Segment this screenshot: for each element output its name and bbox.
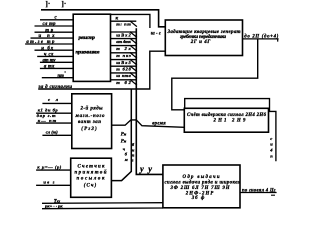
svg-text:Одр выдачи: Одр выдачи <box>183 175 220 180</box>
wire register top output to node K <box>111 14 150 28</box>
wire register output 8 to bus <box>111 73 137 79</box>
wire register output 5 to bus <box>111 52 137 58</box>
svg-text:шВх2: шВх2 <box>116 32 131 37</box>
svg-text:к— пт: к— пт <box>38 118 57 123</box>
wire strobe line from oscillator U2 <box>38 51 165 89</box>
counter U4 box <box>71 158 112 197</box>
wire register input 2 <box>35 22 74 27</box>
wire register output 3 to bus <box>111 38 137 44</box>
wire top line into oscillator U2 <box>41 10 165 27</box>
svg-text:по гновял 4 Цг: по гновял 4 Цг <box>242 189 276 194</box>
svg-text:время: время <box>152 122 166 127</box>
svg-text:вант зап: вант зап <box>78 120 101 125</box>
svg-text:(Сч): (Сч) <box>84 184 97 189</box>
svg-text:сл (т): сл (т) <box>46 129 58 134</box>
svg-text:т б28: т б28 <box>116 67 131 72</box>
svg-text:за д сигнални: за д сигнални <box>38 85 73 90</box>
svg-text:]·: ]· <box>62 0 67 8</box>
wire U6 output <box>240 189 277 196</box>
wire register output 1 to bus <box>111 21 137 27</box>
svg-text:ат 4тк: ат 4тк <box>116 39 131 44</box>
wire U5 input 2 <box>36 108 72 114</box>
wire U5 input 1 <box>42 97 71 103</box>
wire register input 10 <box>42 74 73 79</box>
label vertical text left of bus B <box>123 147 128 162</box>
svg-text:3б ф: 3б ф <box>191 196 205 201</box>
delay counter U3 label <box>187 113 267 123</box>
svg-text:3Ф 2Ш 6Л 7Н 7Ш 9Н: 3Ф 2Ш 6Л 7Н 7Ш 9Н <box>170 186 230 191</box>
register U1 label <box>76 35 101 56</box>
register U1 box <box>73 14 110 81</box>
svg-text:магн.-ного: магн.-ного <box>75 114 106 119</box>
svg-text:б: б <box>132 142 135 147</box>
svg-text:п: п <box>270 154 273 159</box>
label vertical marks on W2 output <box>269 136 273 159</box>
delay counter U3 box <box>184 108 268 132</box>
wire register input 8 <box>40 58 73 63</box>
svg-text:(Рг3): (Рг3) <box>81 127 97 132</box>
svg-text:т 2х: т 2х <box>116 46 131 51</box>
svg-text:т б2: т б2 <box>116 80 131 85</box>
svg-text:н: н <box>132 147 135 152</box>
oscillator U2 output label <box>243 34 279 41</box>
bus A vertical <box>136 28 163 174</box>
svg-text:к μ=— (р): к μ=— (р) <box>37 165 61 170</box>
wire U2 output to U3 input <box>172 39 258 110</box>
svg-text:н бх: н бх <box>41 46 54 51</box>
label vertical text between bus lines <box>132 142 135 163</box>
wire register input 9 <box>40 65 73 70</box>
wire W2 loop from U3 top to output arrow <box>185 99 276 162</box>
svg-text:регистр: регистр <box>78 35 96 41</box>
wire register output 7 to bus <box>111 66 137 72</box>
svg-text:ш-г: ш-г <box>151 32 161 37</box>
svg-text:с: с <box>270 136 272 141</box>
counter U4 label <box>75 165 107 189</box>
svg-text:и пх: и пх <box>39 34 56 39</box>
svg-text:ч сх: ч сх <box>44 53 54 58</box>
svg-text:сл тр: сл тр <box>43 22 57 27</box>
svg-text:шВх5: шВх5 <box>116 60 131 65</box>
svg-text:ат ту: ат ту <box>43 58 57 63</box>
label Rm at bus <box>121 133 127 145</box>
bus B vertical from strobe line to counter U4 <box>111 89 131 181</box>
svg-text:посылок: посылок <box>77 177 106 182</box>
wire register output 6 to bus <box>111 59 137 65</box>
wire register input 1 <box>40 16 73 21</box>
svg-text:2Н1: 2Н1 <box>213 118 227 123</box>
svg-text:м: м <box>124 157 128 162</box>
shift register U5 label <box>75 105 106 131</box>
wire U5 input 4 <box>42 129 71 135</box>
wire bottom line Txx <box>42 199 163 204</box>
svg-text:у у: у у <box>139 163 152 173</box>
wire U5 input 3 <box>36 118 72 123</box>
wire register output 4 to bus <box>111 45 137 51</box>
svg-text:к: к <box>116 15 119 21</box>
svg-text:]·: ]· <box>46 0 51 8</box>
wire register output 9 to bus <box>111 79 137 85</box>
output block U6 label <box>165 175 242 201</box>
svg-text:Счёт выдержка сигнал 2Н4 2Н6: Счёт выдержка сигнал 2Н4 2Н6 <box>187 113 267 118</box>
wire U5 output hop over bus to U3 <box>112 120 185 127</box>
wire register input 7 <box>37 53 73 58</box>
wire register input 6 <box>35 46 74 51</box>
svg-text:2-й ряды: 2-й ряды <box>80 105 104 111</box>
wire U4 input 1 <box>36 165 71 170</box>
svg-text:2Г и 4Г: 2Г и 4Г <box>190 40 211 45</box>
oscillator U2 box <box>165 20 242 56</box>
svg-text:а тх: а тх <box>44 65 55 70</box>
svg-text:ив г: ив г <box>43 180 54 185</box>
svg-text:Рм: Рм <box>121 139 127 144</box>
shift register U5 box <box>72 94 112 149</box>
svg-text:и: и <box>270 142 273 147</box>
svg-text:рк+ · · рк: рк+ · · рк <box>44 204 63 209</box>
node dot above input 10 label <box>64 71 65 72</box>
svg-text:принятой: принятой <box>75 170 107 176</box>
svg-text:дар г.т: дар г.т <box>37 113 56 118</box>
wire register input 5 <box>25 40 73 45</box>
svg-text:г: г <box>132 158 134 163</box>
svg-text:2Н9: 2Н9 <box>231 118 246 123</box>
node top-left tick marks <box>46 0 67 8</box>
svg-text:Рм: Рм <box>121 133 127 138</box>
wire U4 input 2 <box>36 180 71 186</box>
wire register input 3 <box>35 28 74 33</box>
svg-text:сл: сл <box>48 97 59 102</box>
svg-text:4: 4 <box>269 148 273 153</box>
svg-text:т: пт: т: пт <box>116 22 131 27</box>
wire register input 4 <box>31 34 74 39</box>
svg-text:ш пта: ш пта <box>116 73 131 78</box>
svg-text:пт: пт <box>58 74 65 79</box>
svg-text:Счетчик: Счетчик <box>78 165 106 170</box>
wire bottom line 2 <box>42 204 163 209</box>
svg-text:приемников: приемников <box>76 50 101 56</box>
output block U6 box <box>163 165 240 208</box>
svg-text:к1 дн бр: к1 дн бр <box>38 108 59 113</box>
oscillator U2 label <box>167 30 241 45</box>
svg-text:б: б <box>125 152 128 157</box>
svg-text:т пкз: т пкз <box>116 53 131 58</box>
wire register output 2 to bus <box>111 32 137 38</box>
